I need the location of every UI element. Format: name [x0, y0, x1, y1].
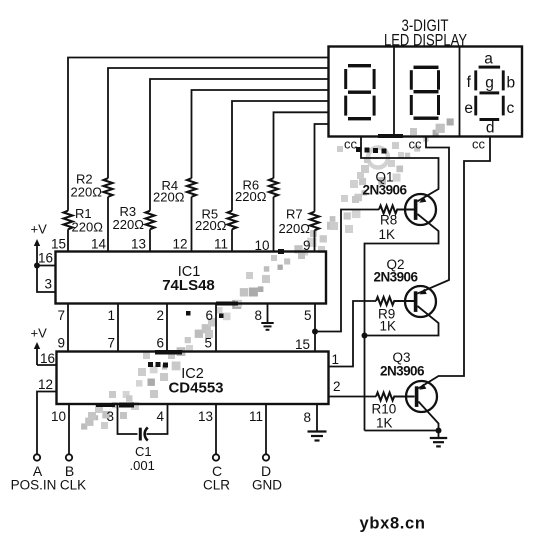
svg-text:GND: GND: [252, 478, 282, 493]
7-segment digit 2: [410, 66, 440, 120]
node junction +V: [34, 263, 40, 269]
svg-text:2: 2: [156, 308, 164, 323]
op IC2 CD4553 box: [57, 352, 329, 405]
svg-text:74LS48: 74LS48: [162, 277, 215, 294]
svg-text:6: 6: [156, 336, 164, 351]
svg-text:12: 12: [172, 237, 187, 252]
terminal C: [213, 454, 219, 460]
svg-text:CLR: CLR: [203, 478, 230, 493]
resistor R4: [187, 178, 196, 197]
svg-text:2: 2: [333, 379, 341, 394]
wire to IC1 pin 16: [37, 265, 56, 267]
svg-text:13: 13: [131, 237, 146, 252]
wire IC2 pin 1 to Q2 base: [329, 301, 377, 367]
svg-text:220Ω: 220Ω: [71, 185, 103, 200]
svg-text:220Ω: 220Ω: [279, 221, 311, 236]
resistor R5: [228, 211, 237, 230]
svg-text:6: 6: [205, 308, 213, 323]
ground IC1 pin 8: [261, 304, 273, 330]
wire pin14: [107, 197, 109, 252]
wire cc1 to Q1 emitter: [361, 137, 439, 202]
resistor R9: [376, 297, 416, 305]
wire IC2.11 to terminal D: [265, 404, 267, 454]
svg-text:11: 11: [249, 409, 263, 424]
svg-text:16: 16: [38, 251, 53, 266]
svg-text:cc: cc: [409, 137, 423, 152]
svg-text:2N3906: 2N3906: [363, 183, 408, 198]
wire pin13: [149, 229, 151, 251]
+V supply for IC1: [31, 222, 56, 293]
title text: [384, 17, 467, 50]
wire cc2 to Q2 emitter: [417, 137, 449, 294]
op IC1 74LS48 box: [56, 252, 327, 304]
svg-text:c: c: [507, 100, 515, 117]
wire pin10: [273, 197, 275, 252]
svg-text:8: 8: [303, 410, 311, 425]
resistor R3: [146, 211, 155, 230]
watermark diagonal gray blocks: [81, 118, 454, 429]
svg-text:R8: R8: [380, 213, 397, 228]
svg-text:5: 5: [204, 336, 212, 351]
wire IC2.10 to terminal B: [68, 404, 70, 454]
wire Q3 collector to ground: [365, 402, 439, 431]
svg-text:1K: 1K: [376, 416, 393, 431]
resistor value labels: [71, 172, 311, 237]
svg-text:C1: C1: [135, 444, 152, 459]
wire Q2 collector to bus: [365, 306, 439, 336]
svg-text:15: 15: [51, 237, 66, 252]
terminal B: [66, 454, 72, 460]
transistor Q2 2N3906: [374, 257, 437, 317]
LED display box DS1: [329, 47, 523, 137]
svg-text:4: 4: [156, 409, 164, 424]
wire IC1.2 to IC2.6: [166, 304, 168, 352]
node junction collector bus: [362, 333, 368, 339]
wire IC1.5 to IC2.15: [314, 304, 316, 352]
wire IC2 pin 12 to terminal A: [37, 392, 57, 455]
watermark dark artifacts: [96, 134, 403, 408]
svg-text:220Ω: 220Ω: [153, 190, 185, 205]
svg-text:10: 10: [51, 409, 66, 424]
ground IC2 pin 8: [308, 404, 327, 441]
svg-text:e: e: [464, 100, 473, 117]
svg-text:12: 12: [38, 377, 53, 392]
svg-text:R7: R7: [286, 207, 303, 222]
svg-text:14: 14: [91, 237, 107, 252]
wire pin12: [191, 197, 193, 252]
watermark gray ring below cc1: [368, 148, 388, 168]
svg-text:cc: cc: [472, 137, 486, 152]
svg-text:8: 8: [254, 308, 262, 323]
svg-text:d: d: [486, 120, 495, 137]
svg-text:3: 3: [106, 409, 114, 424]
resistor R2: [104, 178, 113, 197]
resistor R10: [376, 393, 415, 401]
wire to IC1 pin 3: [37, 266, 56, 293]
capacitor C1 plates: [139, 428, 142, 441]
ground below Q3: [430, 431, 447, 447]
svg-text:15: 15: [295, 337, 310, 352]
svg-text:R10: R10: [372, 402, 397, 417]
svg-text:1K: 1K: [379, 227, 396, 242]
collector bus down: [364, 336, 366, 431]
svg-text:220Ω: 220Ω: [113, 217, 145, 232]
svg-text:CLK: CLK: [60, 478, 86, 493]
svg-text:b: b: [506, 75, 515, 92]
svg-text:+V: +V: [31, 326, 48, 341]
svg-text:CD4553: CD4553: [168, 380, 223, 397]
svg-text:16: 16: [40, 351, 55, 366]
svg-text:1K: 1K: [380, 319, 397, 334]
resistor R8: [379, 206, 416, 214]
IC2 bottom pin numbers: [51, 409, 311, 425]
svg-text:7: 7: [107, 336, 115, 351]
svg-text:POS.IN: POS.IN: [11, 478, 57, 493]
svg-text:1: 1: [107, 308, 115, 323]
svg-text:220Ω: 220Ω: [72, 220, 104, 235]
display cell divider 1: [393, 47, 395, 137]
resistor R1: [64, 211, 73, 230]
svg-text:1: 1: [332, 352, 340, 367]
svg-text:220Ω: 220Ω: [195, 218, 227, 233]
svg-text:2N3906: 2N3906: [380, 364, 425, 379]
svg-text:2N3906: 2N3906: [374, 270, 419, 285]
IC1 bottom pin numbers: [57, 308, 311, 323]
resistor R6: [269, 178, 278, 197]
wire IC2 pin 2 to Q3 base: [329, 396, 377, 398]
wire cc3 to Q3 emitter: [418, 137, 490, 389]
+V supply for IC2: [31, 326, 57, 367]
wire IC1.1 to IC2.7: [117, 304, 119, 352]
transistor Q1 2N3906: [363, 170, 437, 226]
svg-text:9: 9: [57, 336, 65, 351]
wire IC2.13 to terminal C: [215, 404, 217, 454]
node junction IC1.5/IC2.15/Q1 base: [312, 329, 318, 335]
cc labels: [344, 137, 486, 152]
svg-text:ybx8.cn: ybx8.cn: [360, 515, 426, 533]
display cell divider 2: [459, 47, 461, 137]
wire IC1.6 to IC2.5: [215, 304, 217, 352]
IC1 top pin numbers: [51, 237, 311, 254]
svg-text:.001: .001: [130, 458, 155, 473]
wire IC1.7 to IC2.9: [67, 304, 69, 352]
capacitor C1 loop: [118, 404, 138, 434]
terminal A: [34, 454, 40, 460]
svg-text:g: g: [485, 75, 494, 92]
node junction Q3 collector/ground: [436, 428, 442, 434]
svg-text:a: a: [484, 51, 493, 68]
transistor Q3 2N3906: [380, 350, 437, 412]
svg-text:+V: +V: [31, 222, 48, 237]
IC2 top pin numbers: [57, 336, 310, 353]
wire pin11: [231, 229, 233, 251]
wire junction to Q1 base riser: [315, 210, 379, 332]
svg-text:7: 7: [57, 308, 65, 323]
resistor R7: [310, 212, 319, 231]
wire pin9: [314, 230, 316, 251]
terminal D: [263, 454, 269, 460]
svg-text:cc: cc: [344, 137, 358, 152]
wire Q1 collector to bus: [365, 214, 439, 336]
svg-text:13: 13: [198, 409, 213, 424]
svg-text:3: 3: [44, 277, 52, 292]
7-segment digit 1: [344, 64, 375, 120]
svg-text:5: 5: [304, 308, 312, 323]
segment map with letters a-g: [474, 66, 504, 121]
wire pin15: [67, 229, 69, 251]
svg-text:220Ω: 220Ω: [235, 189, 267, 204]
svg-text:f: f: [467, 74, 472, 91]
svg-text:11: 11: [214, 237, 228, 252]
